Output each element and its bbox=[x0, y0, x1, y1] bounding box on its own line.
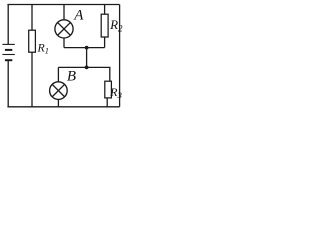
wire left rail lower segment bbox=[7, 60, 9, 107]
svg-text:B: B bbox=[67, 68, 76, 84]
resistor R3 bbox=[105, 81, 112, 107]
lamp A bbox=[55, 5, 73, 48]
svg-text:A: A bbox=[73, 7, 84, 23]
label R1 bbox=[37, 41, 49, 56]
label R3 bbox=[109, 85, 122, 100]
junction dot upper bbox=[85, 46, 89, 50]
wire node between lamp B and R3 bbox=[58, 67, 110, 81]
label R2 bbox=[109, 17, 123, 33]
wire left rail upper segment bbox=[7, 5, 9, 45]
wire right rail bbox=[119, 5, 121, 107]
resistor R2 bbox=[101, 5, 108, 48]
resistor R1 bbox=[29, 5, 36, 107]
label A bbox=[73, 7, 84, 23]
label B bbox=[67, 68, 76, 84]
battery (two cells) on left rail bbox=[2, 44, 14, 60]
wire top rail bbox=[7, 4, 119, 6]
wire middle vertical link bbox=[86, 48, 88, 68]
wire node between lamp A and R2 bbox=[64, 47, 105, 49]
lamp B bbox=[50, 67, 68, 106]
wire bottom rail bbox=[7, 106, 119, 108]
junction dot lower bbox=[85, 66, 89, 70]
